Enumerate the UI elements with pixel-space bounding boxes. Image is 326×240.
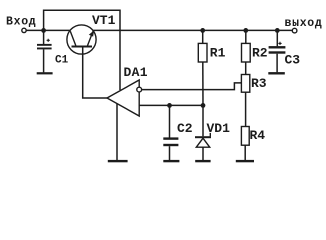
- svg-text:C1: C1: [55, 54, 69, 66]
- capacitor C3 polarity +: [278, 42, 281, 45]
- svg-text:C2: C2: [177, 121, 193, 136]
- wire C3 to ground: [276, 54, 278, 73]
- capacitor C1 lead: [43, 30, 45, 44]
- node R1 rail junction: [200, 28, 205, 33]
- svg-text:R2: R2: [252, 45, 268, 60]
- resistor R1: [198, 30, 207, 105]
- node C2 junction: [167, 103, 172, 108]
- svg-text:R4: R4: [250, 128, 266, 143]
- output terminal: [292, 28, 297, 33]
- wire C2 to ground: [169, 146, 171, 160]
- wire VT1 base to DA1 output: [83, 48, 107, 99]
- svg-text:R1: R1: [210, 45, 226, 60]
- svg-text:Вход: Вход: [6, 16, 36, 29]
- node R2 rail junction: [243, 28, 248, 33]
- node reference junction: [201, 103, 206, 108]
- ground (VD1): [195, 160, 210, 162]
- svg-text:VT1: VT1: [92, 13, 116, 28]
- capacitor C2 plates: [163, 137, 178, 139]
- wire input to VT1 collector: [26, 29, 70, 31]
- wire emitter output rail: [93, 29, 292, 31]
- input terminal: [22, 28, 26, 32]
- ground (C2): [163, 160, 179, 162]
- wire DA1 non-inverting input: [139, 104, 203, 106]
- capacitor C3 lead: [276, 30, 278, 46]
- resistor R3 (preset): [241, 75, 249, 127]
- wire op-amp supply bypass (input to DA1 V+): [44, 10, 120, 90]
- resistor R2: [242, 30, 251, 74]
- resistor R4: [241, 127, 249, 161]
- zener diode VD1: [195, 105, 211, 160]
- op-amp DA1 inverting bubble: [137, 87, 142, 92]
- wire DA1 V- to ground: [116, 104, 118, 161]
- ground (C3): [268, 72, 285, 74]
- ground (C1): [37, 72, 53, 74]
- node input junction: [41, 28, 46, 33]
- ground (DA1): [108, 160, 128, 162]
- capacitor C1 plates: [37, 44, 52, 46]
- capacitor C2 lead: [169, 105, 171, 137]
- wire DA1 inverting input to R3 wiper: [142, 83, 242, 90]
- op-amp DA1: [107, 80, 139, 116]
- svg-text:DA1: DA1: [124, 65, 148, 80]
- svg-text:C3: C3: [285, 53, 301, 68]
- svg-text:R3: R3: [251, 76, 267, 91]
- capacitor C1 polarity +: [47, 39, 50, 42]
- svg-text:VD1: VD1: [207, 121, 231, 136]
- ground (R4): [236, 160, 254, 162]
- node C3 rail junction: [275, 28, 280, 33]
- transistor VT1: [67, 25, 96, 54]
- wire C1 to ground: [43, 49, 45, 72]
- capacitor C3 plates: [269, 46, 286, 48]
- svg-text:выход: выход: [285, 17, 323, 30]
